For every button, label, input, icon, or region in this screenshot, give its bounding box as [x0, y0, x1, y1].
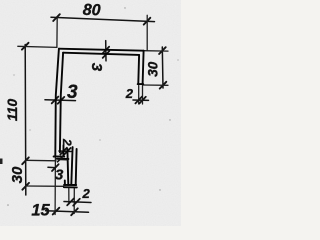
extension line right of 80 [146, 15, 148, 50]
callout 2 (right flange thickness) [138, 86, 140, 105]
clip right wall outer [75, 149, 78, 185]
svg-text:15: 15 [31, 201, 50, 219]
top bar outer [59, 49, 144, 51]
left bar outer [55, 49, 59, 156]
right flange bottom cap [138, 83, 144, 85]
main profile outline [54, 49, 144, 188]
dimension line 80 (top) [51, 14, 155, 24]
callout 2 (clip wall, bottom right) [68, 189, 70, 205]
extension line left of 80 [56, 18, 58, 47]
svg-text:2: 2 [125, 86, 134, 101]
callout 3 (top bar thickness) [103, 41, 110, 61]
extension left of 15 (continuation of bar face) [54, 157, 56, 215]
svg-text:80: 80 [82, 2, 100, 20]
callout 3 (clip lip) [48, 164, 59, 171]
extension mid (110/30 boundary) [26, 159, 56, 162]
bar bottom bend inner [54, 156, 65, 158]
paper speckles [7, 7, 178, 206]
svg-text:2: 2 [60, 138, 74, 146]
bar bottom bend outer [57, 158, 69, 160]
J-lip right face [66, 149, 69, 185]
J-lip left face [62, 145, 64, 156]
extension right of 15 [73, 189, 75, 214]
dimension line 110+30 (left) [22, 43, 29, 195]
callout 2 (J-lip thickness) [59, 148, 71, 155]
clip right wall inner [71, 147, 72, 185]
clip left up-stub outer [64, 180, 66, 185]
ink blot left margin [0, 159, 3, 165]
right flange inner [137, 55, 140, 84]
top bar inner [63, 53, 139, 55]
svg-text:3: 3 [88, 63, 105, 72]
clip bottom cap outer [64, 186, 77, 188]
svg-text:30: 30 [9, 166, 26, 183]
extension bottom of right 30 [143, 84, 168, 86]
svg-text:3: 3 [67, 82, 78, 103]
dimension line 15 (bottom) [46, 208, 89, 216]
svg-text:2: 2 [82, 186, 91, 201]
svg-text:3: 3 [55, 167, 64, 184]
extension top of 110 [18, 46, 57, 47]
right flange outer [143, 51, 144, 84]
svg-text:110: 110 [4, 99, 20, 122]
dimension line 30 (right) [159, 47, 166, 89]
svg-text:30: 30 [145, 61, 160, 77]
callout 3 (left bar thickness) [45, 97, 76, 104]
clip bottom cap inner [64, 184, 76, 186]
junction blob extra ink [58, 157, 63, 162]
extension top of right 30 [144, 50, 168, 52]
extension bottom of left 30 [26, 185, 64, 187]
left bar inner [60, 53, 63, 153]
